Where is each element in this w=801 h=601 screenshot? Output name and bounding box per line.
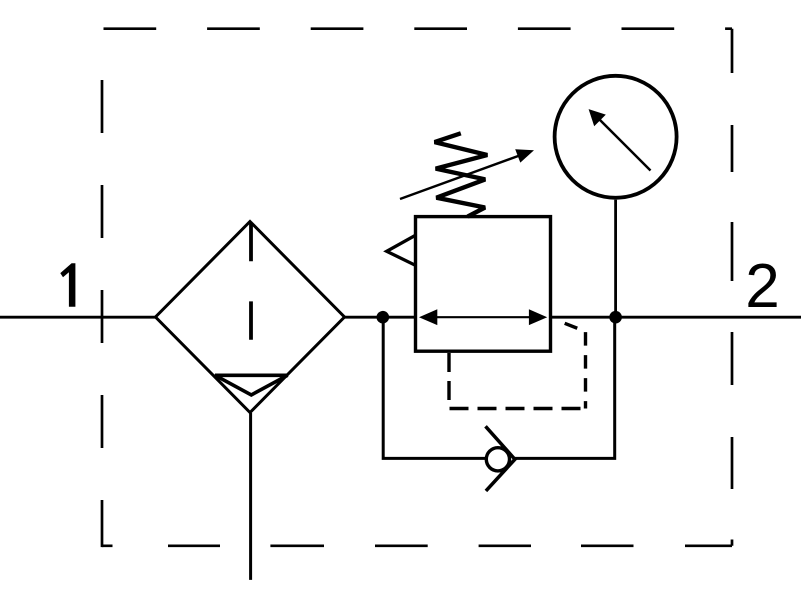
regulator R1 spring (435, 133, 488, 216)
regulator R1 adjustment arrow (400, 154, 523, 199)
filter F1 diamond body (156, 222, 345, 413)
regulator R1 pilot triangle (387, 235, 416, 265)
node dot right (regulator outlet junction) (609, 311, 622, 324)
enclosure dashed border bottom (102, 544, 732, 547)
wire: bypass right segment (515, 317, 615, 458)
regulator R1 pilot sensing dashed line (down leg) (565, 323, 586, 408)
enclosure dashed border top (104, 27, 733, 30)
filter F1 condensate triangle (215, 375, 288, 395)
check valve V1 ball (486, 448, 509, 471)
wire: main line inlet segment (0, 316, 156, 319)
regulator R1 flow double arrow (432, 316, 534, 318)
regulator R1 body box (416, 217, 551, 352)
enclosure dashed border right (731, 29, 734, 546)
svg-text:2: 2 (745, 252, 779, 321)
enclosure dashed border left (101, 80, 104, 547)
regulator R1 pilot sensing dashed line (return leg) (449, 352, 586, 409)
pressure gauge G1 needle (599, 119, 651, 171)
check valve V1 seat (486, 426, 515, 491)
filter F1 center dashed line (249, 223, 253, 340)
port 1 label (60, 263, 75, 307)
wire: main line filter-to-regulator segment (345, 316, 417, 319)
wire: bypass left drop (383, 317, 486, 458)
wire: gauge stem (614, 200, 617, 317)
pressure gauge G1 body (555, 76, 677, 198)
wire: main line outlet segment (550, 316, 801, 319)
filter F1 drain line (249, 413, 252, 580)
node dot left (regulator inlet junction) (377, 311, 390, 324)
